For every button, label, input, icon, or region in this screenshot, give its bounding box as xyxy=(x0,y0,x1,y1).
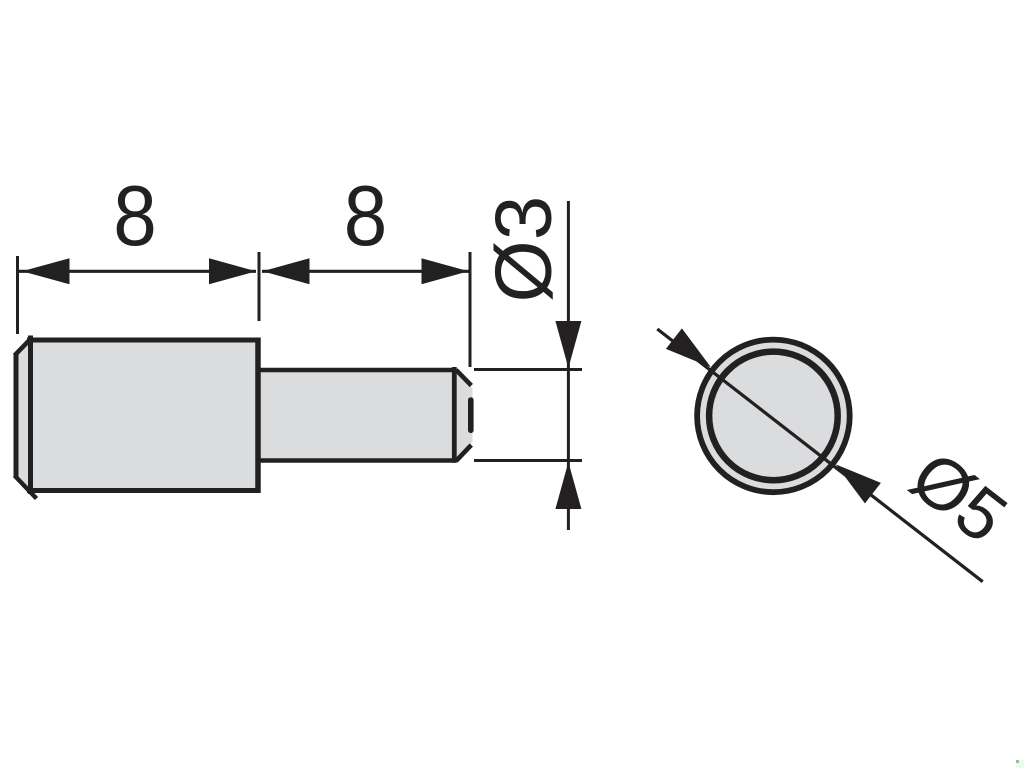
big cylinder right edge (step face) xyxy=(255,338,261,494)
big cylinder bottom edge xyxy=(27,488,258,493)
Ø5 lower-right arrowhead xyxy=(836,464,881,503)
watermark green dot xyxy=(1016,760,1019,763)
shaft bottom edge xyxy=(258,458,457,463)
big cylinder top-left chamfer diagonal xyxy=(15,339,31,356)
dim1 left arrowhead xyxy=(22,258,70,284)
extension line middle (between dims) xyxy=(258,252,261,321)
svg-text:8: 8 xyxy=(344,169,387,264)
Ø3 bottom extension line xyxy=(474,459,582,462)
shaft end chamfer line xyxy=(452,367,457,463)
end view outer circle (5mm cylinder) xyxy=(697,340,850,493)
dimension line 8 #2 xyxy=(262,270,469,273)
Ø3 dimension line vertical xyxy=(567,201,570,530)
watermark green square bottom-right xyxy=(1016,760,1024,768)
dim2 right arrowhead xyxy=(422,258,469,284)
big cylinder leftmost edge xyxy=(14,354,19,478)
extension line left (dim 8 #1) xyxy=(16,256,19,334)
svg-text:8: 8 xyxy=(113,169,156,264)
big cylinder left chamfer line xyxy=(28,336,33,495)
extension line right (dim 8 #2) xyxy=(469,252,472,367)
Ø3 lower arrowhead (points up) xyxy=(555,462,581,509)
end view inner circle (chamfer edge) xyxy=(709,352,838,481)
shaft end bottom chamfer diagonal xyxy=(456,445,471,461)
dimension line 8 #1 xyxy=(19,270,256,273)
shaft end top chamfer diagonal xyxy=(456,370,471,386)
Ø3 top extension line xyxy=(474,368,582,371)
shaft end face edge xyxy=(468,400,474,430)
big cylinder bottom-left chamfer diagonal xyxy=(15,476,37,499)
Ø5 diagonal dimension line xyxy=(657,329,982,582)
pin shaft fill (small cylinder side view) xyxy=(258,370,473,461)
Ø5 upper-left arrowhead xyxy=(666,328,711,367)
svg-text:Ø3: Ø3 xyxy=(479,196,568,303)
shaft top edge xyxy=(258,368,456,373)
big cylinder top edge xyxy=(27,338,258,343)
Ø3 upper arrowhead (points down) xyxy=(555,321,581,368)
dim1 right arrowhead xyxy=(209,258,256,284)
dim2 left arrowhead xyxy=(263,258,310,284)
pin body fill (large cylinder side view) xyxy=(16,340,258,491)
